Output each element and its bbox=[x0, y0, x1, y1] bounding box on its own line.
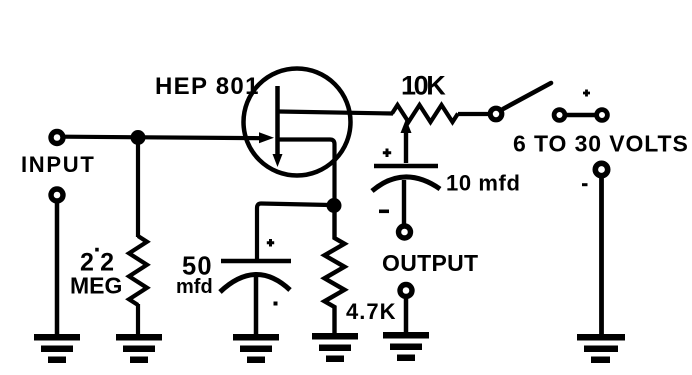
capacitor C2 top plate bbox=[374, 164, 438, 169]
battery plug terminal right bbox=[597, 110, 608, 121]
wire J2 to C1 bbox=[257, 204, 330, 260]
svg-text:INPUT: INPUT bbox=[21, 152, 96, 177]
wire J1 to R1 bbox=[136, 140, 140, 237]
node junction J1 bbox=[131, 130, 146, 145]
ground (output) bbox=[383, 332, 429, 361]
wire drain to 10K bbox=[279, 112, 393, 114]
capacitor C2 plus sign bbox=[383, 149, 391, 158]
battery plus sign bbox=[583, 90, 590, 97]
wire input to gate bbox=[65, 137, 262, 139]
svg-text:4.7K: 4.7K bbox=[346, 299, 396, 324]
wire C2 to OUTPUT bbox=[402, 180, 406, 225]
battery plug terminal left bbox=[554, 110, 565, 121]
capacitor C1 bottom plate arc bbox=[220, 274, 290, 292]
potentiometer wiper arrow up bbox=[401, 119, 412, 133]
capacitor C2 bottom plate arc bbox=[372, 177, 440, 191]
capacitor C1 plus sign bbox=[267, 239, 274, 247]
node junction J2 bbox=[327, 198, 342, 213]
ground (input) bbox=[34, 334, 80, 363]
stray dot bbox=[274, 302, 278, 306]
capacitor C2 minus sign bbox=[379, 210, 389, 214]
wire OUTPUT-bottom to ground bbox=[404, 297, 409, 333]
capacitor C1 top plate bbox=[221, 259, 291, 264]
svg-text:OUTPUT: OUTPUT bbox=[382, 250, 478, 276]
ground (50 mfd) bbox=[233, 334, 279, 363]
svg-text:HEP 801: HEP 801 bbox=[155, 73, 260, 100]
wire plug link bbox=[565, 113, 597, 117]
wire 10K to switch bbox=[458, 112, 489, 116]
svg-text:mfd: mfd bbox=[176, 276, 213, 298]
battery minus sign bbox=[582, 183, 588, 186]
transistor bar arrow down bbox=[273, 154, 283, 167]
ground (2.2 MEG) bbox=[116, 334, 162, 363]
ground (4.7K) bbox=[312, 333, 358, 362]
svg-text:2.2: 2.2 bbox=[80, 230, 115, 277]
svg-text:6 TO 30 VOLTS: 6 TO 30 VOLTS bbox=[513, 131, 689, 157]
terminal INPUT top bbox=[51, 132, 63, 144]
ground (supply) bbox=[577, 334, 625, 363]
resistor R1 2.2 MEG bbox=[129, 236, 147, 305]
switch S1 pole terminal bbox=[490, 108, 502, 120]
terminal INPUT bottom bbox=[51, 189, 63, 201]
wire supply to ground bbox=[599, 177, 604, 335]
svg-text:10K: 10K bbox=[401, 71, 446, 101]
svg-text:MEG: MEG bbox=[70, 273, 122, 299]
resistor R2 4.7K bbox=[325, 203, 345, 334]
terminal OUTPUT bottom bbox=[400, 285, 412, 297]
transistor Q1 HEP 801 circle bbox=[244, 69, 351, 176]
transistor gate arrow bbox=[259, 132, 274, 143]
switch S1 blade bbox=[503, 83, 551, 109]
resistor R3 10K bbox=[392, 105, 458, 122]
wire C1 to ground bbox=[254, 277, 259, 335]
wire wiper to C2 bbox=[404, 128, 408, 163]
wire input-bottom to ground bbox=[55, 202, 60, 335]
svg-text:10 mfd: 10 mfd bbox=[446, 171, 521, 196]
wire R1 to ground bbox=[136, 304, 140, 335]
wire source lead bbox=[279, 140, 335, 202]
terminal OUTPUT top bbox=[399, 226, 411, 238]
transistor channel bar bbox=[275, 86, 280, 158]
terminal supply bottom bbox=[595, 163, 607, 175]
